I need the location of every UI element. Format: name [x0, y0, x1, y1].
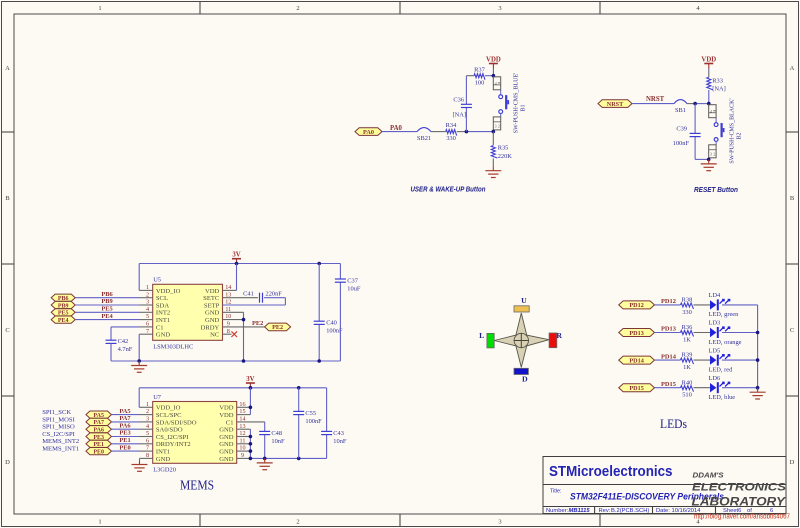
port PE2: [265, 323, 291, 331]
caption USER & WAKE-UP Button: [411, 185, 486, 194]
svg-text:C: C: [790, 327, 794, 334]
net label PD13: [661, 326, 676, 333]
wire pin14 C1 to C48: [237, 422, 265, 432]
junction: [235, 262, 239, 266]
svg-text:LEDs: LEDs: [660, 417, 687, 431]
port PA7: [86, 418, 112, 426]
svg-text:330: 330: [446, 135, 456, 142]
svg-text:PA7: PA7: [119, 415, 131, 422]
svg-text:PB6: PB6: [101, 291, 113, 298]
junction: [492, 130, 496, 134]
svg-text:LED, orange: LED, orange: [709, 339, 742, 346]
title block: [543, 457, 786, 514]
svg-text:1K: 1K: [683, 364, 691, 371]
node MEMS_INT2: [42, 438, 79, 445]
STMicroelectronics logo text: [549, 463, 673, 480]
solder bridge SB1: [674, 100, 687, 114]
svg-text:330: 330: [682, 309, 692, 316]
svg-text:R37: R37: [474, 66, 485, 73]
svg-text:PD13: PD13: [629, 330, 643, 337]
svg-text:GND: GND: [219, 456, 234, 463]
svg-text:PD12: PD12: [661, 298, 676, 305]
svg-text:PD15: PD15: [661, 381, 676, 388]
svg-text:SETC: SETC: [203, 295, 220, 302]
wire VDD bus pins 16,15: [237, 388, 251, 415]
svg-text:1K: 1K: [683, 336, 691, 343]
power 3V: [232, 252, 241, 264]
port PD12: [619, 301, 655, 309]
wire pin6 to C42: [111, 327, 153, 340]
svg-text:C37: C37: [347, 277, 358, 284]
svg-text:3V: 3V: [232, 252, 240, 259]
svg-text:3: 3: [498, 519, 501, 526]
junction: [492, 74, 496, 78]
svg-text:A: A: [790, 65, 795, 72]
svg-text:D: D: [522, 375, 528, 384]
wire pin8 GND: [140, 458, 153, 461]
svg-text:3: 3: [498, 5, 501, 12]
resistor R40 510: [681, 379, 694, 398]
junction: [693, 102, 697, 106]
wire: [112, 414, 153, 416]
net label PD12: [661, 298, 676, 305]
wire: [75, 311, 153, 313]
ground rail: [250, 457, 326, 459]
capacitor C40 100nF: [314, 264, 343, 362]
svg-text:LED, blue: LED, blue: [709, 394, 736, 401]
svg-text:NRST: NRST: [646, 96, 665, 103]
svg-text:PE5: PE5: [101, 306, 112, 313]
caption LEDs: [660, 417, 687, 431]
svg-text:C1: C1: [156, 324, 164, 331]
port PA5: [86, 411, 112, 419]
svg-text:Rev:: Rev:: [599, 508, 611, 514]
wire: [75, 304, 153, 306]
svg-text:R34: R34: [446, 122, 457, 129]
wire: [112, 421, 153, 423]
svg-text:VDD: VDD: [486, 57, 501, 64]
svg-text:220nF: 220nF: [266, 291, 283, 298]
svg-text:INT2: INT2: [156, 310, 170, 317]
wire: [655, 387, 681, 389]
svg-text:D: D: [5, 459, 10, 466]
svg-text:10uF: 10uF: [347, 285, 361, 292]
svg-text:GND: GND: [219, 449, 234, 456]
svg-text:PE0: PE0: [93, 449, 104, 455]
svg-text:1: 1: [146, 284, 149, 291]
svg-text:C41: C41: [243, 291, 254, 298]
svg-text:SPI1_MOSI: SPI1_MOSI: [42, 416, 75, 423]
svg-text:C: C: [5, 327, 9, 334]
capacitor C43 10nF: [321, 388, 347, 459]
IC U7 L3GD20: [146, 394, 246, 473]
joystick R key: [549, 331, 562, 348]
svg-text:PE4: PE4: [101, 313, 113, 320]
pushbutton B1 SW-PUSH-CMS_BLUE: [493, 73, 526, 133]
junction: [297, 386, 301, 390]
capacitor C41 220nF: [223, 291, 286, 305]
wire: [694, 387, 711, 389]
node SPI1_MOSI: [42, 416, 75, 423]
svg-text:1: 1: [98, 519, 101, 526]
solder bridge SB21: [417, 128, 431, 143]
wire GND bus pins 13-9: [237, 429, 251, 458]
svg-text:B1: B1: [521, 104, 527, 111]
svg-text:U: U: [521, 296, 527, 305]
wire: [112, 450, 153, 452]
svg-text:C42: C42: [118, 338, 129, 345]
svg-text:220K: 220K: [498, 153, 513, 160]
wire 3V rail: [139, 387, 326, 389]
ground: [485, 166, 501, 177]
svg-text:VDD_IO: VDD_IO: [156, 405, 181, 412]
junction: [707, 158, 711, 162]
svg-text:[NA]: [NA]: [712, 85, 726, 92]
pushbutton B2 SW-PUSH-CMS_BLACK: [709, 98, 743, 163]
svg-text:4.7nF: 4.7nF: [118, 346, 133, 353]
wire R37 to VDD node: [485, 75, 493, 77]
capacitor C37 10uF: [335, 264, 361, 362]
junction: [137, 359, 141, 363]
resistor R38 330: [681, 297, 694, 316]
net label PE5: [101, 306, 112, 313]
net label PA5: [119, 408, 130, 415]
svg-text:NRST: NRST: [607, 101, 624, 108]
ground: [132, 461, 148, 471]
wire pins 11,10 GND: [223, 312, 244, 361]
wire: [722, 387, 758, 389]
wire: [694, 332, 711, 334]
svg-text:SB1: SB1: [675, 107, 686, 114]
svg-text:VDD: VDD: [219, 405, 234, 412]
svg-text:B: B: [5, 195, 10, 202]
power VDD: [486, 57, 501, 76]
svg-text:PD15: PD15: [629, 385, 643, 392]
svg-text:PA0: PA0: [363, 129, 374, 136]
wire SB1 to node: [687, 103, 709, 105]
port PE5: [51, 309, 75, 317]
port PD15: [619, 384, 655, 392]
joystick star: [494, 313, 549, 367]
svg-text:GND: GND: [219, 427, 234, 434]
svg-text:LD4: LD4: [709, 292, 722, 299]
svg-text:PA6: PA6: [119, 422, 131, 429]
svg-text:Title:: Title:: [550, 489, 561, 495]
resistor R37 100: [474, 66, 486, 86]
svg-text:[NA]: [NA]: [453, 112, 467, 119]
resistor R34 330: [446, 122, 457, 142]
svg-text:D: D: [790, 459, 795, 466]
ground: [131, 361, 147, 372]
junction: [242, 359, 246, 363]
svg-text:2: 2: [713, 151, 715, 156]
svg-text:SPI1_MISO: SPI1_MISO: [42, 424, 75, 431]
svg-text:SCL: SCL: [156, 295, 168, 302]
port PB9: [51, 301, 75, 309]
wire LED bus: [757, 305, 759, 388]
svg-text:2: 2: [296, 5, 299, 12]
wire R34 to node: [457, 131, 494, 133]
resistor R35 220K: [491, 132, 512, 167]
wire: [694, 304, 711, 306]
net label PE1: [119, 437, 130, 444]
svg-text:U7: U7: [153, 394, 162, 401]
port PA0: [355, 128, 382, 136]
svg-text:C40: C40: [326, 320, 337, 327]
svg-text:DDAM'S: DDAM'S: [693, 470, 724, 479]
svg-text:510: 510: [682, 392, 692, 399]
svg-text:VDD: VDD: [701, 57, 716, 64]
wire: [75, 297, 153, 299]
svg-text:USER & WAKE-UP Button: USER & WAKE-UP Button: [411, 185, 486, 194]
svg-text:C43: C43: [333, 430, 344, 437]
svg-text:R38: R38: [682, 297, 693, 304]
junction: [242, 318, 246, 322]
svg-text:LABORATORY: LABORATORY: [692, 495, 788, 509]
svg-text:http://blog.naver.com/ansdbtls: http://blog.naver.com/ansdbtls4067: [694, 513, 790, 520]
ground: [701, 159, 717, 170]
capacitor C36 [NA]: [453, 76, 472, 132]
svg-text:1: 1: [146, 401, 149, 408]
svg-text:10nF: 10nF: [271, 438, 285, 445]
svg-text:R36: R36: [682, 324, 693, 331]
svg-text:SCL/SPC: SCL/SPC: [156, 412, 182, 419]
port PA6: [86, 426, 112, 434]
watermark DDAM'S ELECTRONICS LABORATORY: [692, 470, 788, 508]
wire C39 to B2: [695, 158, 709, 160]
svg-text:R33: R33: [712, 77, 723, 84]
junction: [249, 406, 253, 410]
svg-text:INT1: INT1: [156, 317, 170, 324]
svg-text:PA5: PA5: [119, 408, 130, 415]
svg-text:3: 3: [494, 124, 496, 129]
svg-text:MEMS_INT1: MEMS_INT1: [42, 446, 79, 453]
ground: [257, 458, 273, 469]
resistor R33 [NA]: [707, 71, 726, 104]
node CS_I2C/SPI: [42, 431, 75, 438]
svg-text:GND: GND: [156, 332, 171, 339]
junction: [317, 262, 321, 266]
port PB6: [51, 294, 75, 302]
svg-text:NC: NC: [210, 332, 220, 339]
svg-text:VDD: VDD: [205, 288, 220, 295]
net label PA6: [119, 422, 131, 429]
wire: [112, 428, 153, 430]
svg-text:3V: 3V: [246, 376, 254, 383]
titleblock row: number/rev/date/sheet: [546, 508, 773, 514]
svg-text:L: L: [479, 331, 484, 340]
svg-text:PE2: PE2: [252, 320, 263, 327]
capacitor C42 4.7nF: [106, 338, 133, 361]
IC U5 LSM303DLHC: [146, 277, 231, 351]
resistor R36 1K: [681, 324, 694, 343]
ground rail: [111, 360, 340, 362]
svg-text:SW-PUSH-CMS_BLUE': SW-PUSH-CMS_BLUE': [514, 73, 520, 133]
svg-text:PD14: PD14: [661, 353, 677, 360]
power 3V: [246, 376, 255, 388]
svg-text:C1: C1: [226, 419, 234, 426]
svg-text:GND: GND: [205, 317, 220, 324]
svg-text:PA0: PA0: [390, 125, 403, 132]
svg-text:100nF: 100nF: [673, 140, 690, 147]
svg-text:PB9: PB9: [101, 298, 112, 305]
svg-text:STMicroelectronics: STMicroelectronics: [549, 463, 673, 480]
svg-text:SW-PUSH-CMS_BLACK': SW-PUSH-CMS_BLACK': [730, 98, 736, 163]
joystick L key: [479, 331, 494, 348]
svg-text:1: 1: [98, 5, 101, 12]
net label PD14: [661, 353, 677, 360]
svg-text:PE3: PE3: [119, 430, 130, 437]
svg-text:GND: GND: [156, 456, 171, 463]
LED LD6: [709, 375, 736, 401]
junction: [317, 359, 321, 363]
wire: [722, 304, 758, 306]
junction: [756, 331, 760, 390]
LED LD5: [709, 347, 734, 373]
wire: [722, 332, 758, 334]
svg-text:R39: R39: [682, 352, 693, 359]
svg-text:B: B: [790, 195, 795, 202]
wire rail to pin1: [139, 264, 153, 291]
svg-text:VDD: VDD: [219, 412, 234, 419]
svg-text:DRDY/INT2: DRDY/INT2: [156, 441, 191, 448]
title STM32F411E-DISCOVERY Peripherals: [570, 492, 724, 503]
svg-text:B2: B2: [737, 132, 743, 139]
svg-text:A: A: [5, 65, 10, 72]
svg-text:LD6: LD6: [709, 375, 721, 382]
power VDD: [701, 57, 716, 71]
svg-text:SDA: SDA: [156, 302, 169, 309]
port PE4: [51, 316, 75, 324]
svg-text:2: 2: [498, 124, 500, 129]
svg-text:CS_I2C/SPI: CS_I2C/SPI: [42, 431, 75, 438]
wire PA0 to SB21: [382, 131, 417, 133]
svg-text:100: 100: [475, 79, 485, 86]
wire pin14 to rail: [223, 264, 237, 291]
port PE0: [86, 448, 112, 456]
svg-text:SPI1_SCK: SPI1_SCK: [42, 409, 71, 416]
svg-text:2: 2: [296, 519, 299, 526]
svg-text:PD12: PD12: [629, 302, 643, 309]
svg-text:GND: GND: [219, 434, 234, 441]
capacitor C39 100nF: [673, 104, 701, 160]
title label: [550, 489, 561, 495]
net label PE3: [119, 430, 130, 437]
svg-text:MB1115: MB1115: [569, 508, 591, 514]
wire: [694, 359, 711, 361]
ground: [750, 388, 766, 399]
net label PA0: [390, 125, 403, 132]
svg-text:3: 3: [710, 151, 712, 156]
svg-text:C36: C36: [453, 96, 464, 103]
svg-text:GND: GND: [219, 441, 234, 448]
no-connect pin8: [223, 331, 238, 337]
svg-text:100nF: 100nF: [305, 418, 322, 425]
svg-text:DRDY: DRDY: [201, 324, 220, 331]
svg-text:Number:: Number:: [546, 508, 569, 514]
svg-text:LD3: LD3: [709, 320, 721, 327]
port PE3: [86, 433, 112, 441]
port PE1: [86, 440, 112, 448]
svg-text:PD13: PD13: [661, 326, 676, 333]
svg-text:PE1: PE1: [119, 437, 130, 444]
wire: [655, 359, 681, 361]
junction: [249, 457, 301, 461]
port PD14: [619, 356, 655, 364]
svg-text:INT1: INT1: [156, 449, 170, 456]
svg-text:LSM303DLHC: LSM303DLHC: [153, 343, 193, 350]
caption RESET Button: [694, 185, 738, 194]
resistor R39 1K: [681, 352, 694, 371]
wire: [655, 304, 681, 306]
svg-text:C55: C55: [305, 410, 316, 417]
svg-text:GND: GND: [205, 310, 220, 317]
svg-text:LED, green: LED, green: [709, 311, 740, 318]
wire rail to pin1: [139, 388, 153, 408]
capacitor C55 100nF: [293, 388, 322, 459]
wire NRST to SB1: [632, 103, 674, 105]
wire: [112, 436, 153, 438]
joystick U key: [514, 296, 529, 312]
node SPI1_SCK: [42, 409, 71, 416]
svg-text:MEMS_INT2: MEMS_INT2: [42, 438, 79, 445]
net label PE4: [101, 313, 113, 320]
junction: [249, 435, 253, 453]
wire SB21 to R34: [431, 131, 446, 133]
svg-text:LED, red: LED, red: [709, 366, 734, 373]
net label PE2: [252, 320, 263, 327]
svg-text:ELECTRONICS: ELECTRONICS: [692, 481, 787, 493]
caption MEMS: [180, 478, 214, 493]
joystick D key: [514, 368, 528, 383]
svg-text:SB21: SB21: [417, 135, 431, 142]
URL: [694, 513, 790, 520]
svg-text:PE2: PE2: [272, 324, 283, 331]
svg-text:SETP: SETP: [204, 302, 220, 309]
svg-text:C39: C39: [676, 126, 687, 133]
wire: [75, 319, 153, 321]
node MEMS_INT1: [42, 446, 79, 453]
svg-text:SA0/SDO: SA0/SDO: [156, 427, 183, 434]
svg-text:R35: R35: [498, 145, 509, 152]
capacitor C48 10nF: [259, 430, 285, 459]
wire pin7 GND: [139, 334, 153, 361]
svg-text:B.2(PCB.SCH): B.2(PCB.SCH): [611, 508, 649, 514]
svg-text:10nF: 10nF: [333, 438, 347, 445]
LED LD4: [709, 292, 740, 318]
net label PB6: [101, 291, 113, 298]
wire corner to R37: [466, 75, 474, 77]
net label PB9: [101, 298, 112, 305]
junction: [249, 386, 253, 390]
svg-text:PE0: PE0: [119, 444, 130, 451]
svg-text:U5: U5: [153, 277, 161, 284]
net label PA7: [119, 415, 131, 422]
net label PD15: [661, 381, 676, 388]
junction: [707, 102, 711, 106]
svg-text:L3GD20: L3GD20: [153, 466, 176, 473]
net label PE0: [119, 444, 130, 451]
wire 3V rail: [139, 263, 340, 265]
wire pin9 DRDY: [223, 326, 265, 328]
wire: [112, 443, 153, 445]
LED LD3: [709, 320, 742, 346]
port PD13: [619, 329, 655, 337]
svg-text:SDA/SDI/SDO: SDA/SDI/SDO: [156, 419, 197, 426]
port NRST: [598, 100, 632, 108]
svg-text:LD5: LD5: [709, 347, 721, 354]
wire: [722, 359, 758, 361]
